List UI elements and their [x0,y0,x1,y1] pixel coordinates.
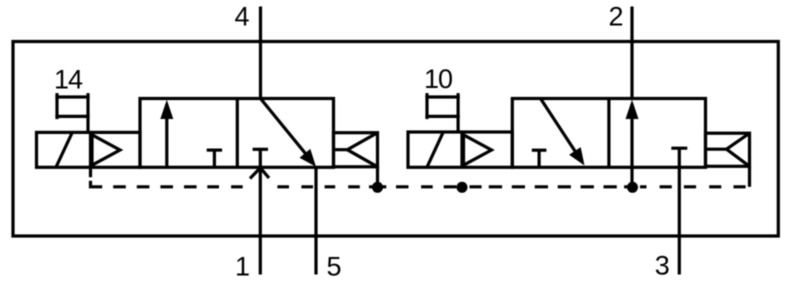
V2 pilot port 10 symbol [425,93,459,132]
V1 pilot triangle [92,135,120,165]
V2 left position flow path with arrow [541,99,585,166]
V2 return spring [706,133,750,166]
svg-text:3: 3 [655,251,670,281]
V1 solenoid coil box [37,132,141,167]
svg-text:2: 2 [609,2,624,32]
enclosure frame of valve terminal [13,42,778,237]
svg-text:4: 4 [235,2,250,32]
V1 right position flow path 4 to 5 with arrow [261,99,317,167]
junction dot C [627,182,638,193]
svg-text:10: 10 [424,64,452,94]
valve V1 position divider [236,99,239,168]
svg-text:1: 1 [235,251,250,281]
pilot tap stub under V2 body [630,167,633,187]
valve V1 body (two-position 3/2 valve, left) [140,99,334,168]
V1 return spring [334,133,378,167]
pilot stub under V2 spring [748,166,751,187]
V2 right position blocked port 3 crossbar [671,147,687,150]
svg-text:14: 14 [54,64,83,94]
junction dot B at V2 pilot [457,182,468,193]
port 3 line [678,148,681,274]
V2 left position blocked port [532,150,547,167]
svg-text:5: 5 [327,251,342,281]
port 4 line [259,7,262,99]
port 1 chevron arrow [250,168,269,179]
port 2 line [630,7,633,99]
V1 left position flow arrow [160,100,173,168]
V1 pilot port 14 symbol [55,93,89,132]
junction dot A [372,182,383,193]
port 5 line [314,167,317,275]
valve V2 position divider [607,99,610,168]
V1 left position blocked port [207,150,222,167]
port 1 line [259,168,262,275]
pilot tap stub from V1 spring [376,167,379,188]
valve V2 body (two-position 3/2 valve, right) [512,99,705,168]
V2 right position flow arrow 1 to 2 [626,100,639,168]
V2 solenoid coil box [408,132,512,167]
pilot control line dashed horizontal [113,185,745,188]
pilot control line dashed vertical from V1 solenoid [91,169,103,187]
V1 right position blocked port 1 [253,149,268,167]
V2 pilot triangle [464,135,492,165]
